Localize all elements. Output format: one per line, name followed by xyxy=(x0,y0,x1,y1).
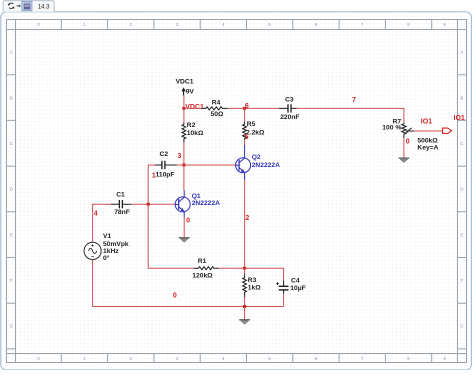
svg-text:120kΩ: 120kΩ xyxy=(192,272,213,279)
ground (Q1 emitter) xyxy=(179,237,190,239)
svg-text:IO1: IO1 xyxy=(454,115,465,122)
svg-text:A: A xyxy=(461,50,464,55)
svg-text:C: C xyxy=(460,141,463,146)
capacitor C2 110pF xyxy=(155,151,177,178)
svg-text:V1: V1 xyxy=(103,233,111,240)
wire net VDC1 rail to R4 xyxy=(184,107,202,109)
junction node 1 xyxy=(147,203,150,206)
resistor R4 50Ω xyxy=(202,100,228,118)
transistor Q2 2N2222A xyxy=(236,154,281,173)
svg-text:2: 2 xyxy=(245,215,249,222)
wire node 3 to C2 xyxy=(177,164,184,166)
ground (R7) xyxy=(399,157,410,159)
svg-text:2N2222A: 2N2222A xyxy=(192,200,220,207)
source V1 50mVpk 1kHz xyxy=(84,233,129,262)
svg-text:C2: C2 xyxy=(160,151,169,158)
svg-text:B: B xyxy=(10,95,13,100)
svg-text:0: 0 xyxy=(186,217,190,224)
capacitor C4 10µF (electrolytic) xyxy=(276,277,305,293)
Q1 emitter pin xyxy=(183,212,185,218)
potentiometer R7 500kΩ Key=A 100% xyxy=(382,119,438,152)
junction VDC1 rail / R2 xyxy=(182,107,185,110)
svg-text:5: 5 xyxy=(245,134,249,141)
wire V1 top to C1 xyxy=(93,204,111,242)
wire R2 to node 3 xyxy=(183,143,185,166)
svg-text:R2: R2 xyxy=(187,122,196,129)
svg-text:R4: R4 xyxy=(212,100,221,107)
svg-text:E: E xyxy=(461,232,464,237)
svg-text:C: C xyxy=(10,141,13,146)
wire R4 to node 6 xyxy=(228,107,245,109)
wire net VDC1 vertical from supply to rail xyxy=(183,95,185,108)
svg-text:110pF: 110pF xyxy=(156,171,175,178)
svg-text:0: 0 xyxy=(406,138,410,145)
svg-text:F: F xyxy=(10,278,13,283)
svg-text:10µF: 10µF xyxy=(290,285,305,292)
svg-text:C3: C3 xyxy=(285,96,294,103)
wire rail to R2 xyxy=(183,108,185,122)
wire net 2: Q2 emitter down to R1/R3 junction xyxy=(244,180,246,268)
wire R7 bottom to ground xyxy=(403,138,405,158)
wire net 0 bottom rail xyxy=(93,260,284,307)
svg-text:D: D xyxy=(10,187,13,192)
svg-text:100 %: 100 % xyxy=(382,125,401,132)
junction node 6 xyxy=(243,107,246,110)
resistor R1 120kΩ xyxy=(192,258,218,279)
Q1 collector pin xyxy=(183,191,185,198)
svg-text:VDC1: VDC1 xyxy=(185,104,204,111)
svg-text:G: G xyxy=(460,324,463,329)
Q2 emitter pin xyxy=(244,173,246,180)
transistor Q1 2N2222A xyxy=(175,193,220,212)
svg-text:2N2222A: 2N2222A xyxy=(252,162,280,169)
svg-text:1: 1 xyxy=(152,172,156,179)
svg-text:6: 6 xyxy=(245,103,249,110)
wire node 6 to R5 xyxy=(244,108,246,121)
svg-text:9V: 9V xyxy=(186,88,195,95)
svg-text:0: 0 xyxy=(173,293,177,300)
svg-text:VDC1: VDC1 xyxy=(176,78,194,85)
wire node 3 to Q2 base xyxy=(184,164,236,166)
svg-text:2.2kΩ: 2.2kΩ xyxy=(246,129,265,136)
junction R1/R3/C4/net2 xyxy=(243,267,246,270)
svg-text:IO1: IO1 xyxy=(421,118,432,125)
wire Q1 emitter to ground xyxy=(183,218,185,238)
wire junction to ground xyxy=(244,307,246,320)
wire node 6 to C3 xyxy=(245,107,279,109)
ground (bottom rail) xyxy=(239,319,250,321)
svg-text:F: F xyxy=(461,278,464,283)
svg-text:C4: C4 xyxy=(291,277,300,284)
wire wiper to IO1 connector xyxy=(414,130,443,132)
power source VDC1 (9V supply arrow) xyxy=(176,78,195,95)
wire node 1 down to R1 xyxy=(148,204,193,268)
wire node 3 down to Q1 collector xyxy=(183,165,185,191)
svg-text:50mVpk: 50mVpk xyxy=(103,241,129,248)
resistor R5 2.2kΩ xyxy=(243,121,265,140)
wire C1 to node 1 / Q1 base xyxy=(131,203,175,205)
svg-text:R5: R5 xyxy=(247,121,256,128)
junction bottom rail / ground xyxy=(243,305,246,308)
svg-text:R1: R1 xyxy=(198,258,207,265)
svg-text:B: B xyxy=(461,95,464,100)
svg-text:1kΩ: 1kΩ xyxy=(248,284,261,291)
svg-text:G: G xyxy=(10,324,13,329)
svg-text:4: 4 xyxy=(94,211,98,218)
wire junction to C4 xyxy=(245,268,284,280)
wire net 7 from C3 to R7 top xyxy=(297,108,404,122)
Q2 collector pin xyxy=(244,145,246,158)
resistor R3 1kΩ xyxy=(243,268,262,297)
capacitor C1 78nF xyxy=(111,191,131,216)
resistor R2 10kΩ xyxy=(182,122,204,143)
svg-text:220nF: 220nF xyxy=(280,114,299,121)
svg-text:7: 7 xyxy=(352,97,356,104)
svg-text:50Ω: 50Ω xyxy=(211,111,224,118)
svg-text:500kΩ: 500kΩ xyxy=(417,138,438,145)
connector IO1 xyxy=(421,118,452,133)
svg-text:14.3: 14.3 xyxy=(38,4,50,10)
svg-text:A: A xyxy=(10,50,13,55)
capacitor C3 220nF xyxy=(279,96,300,121)
wire R5 to Q2 collector xyxy=(244,140,246,145)
svg-text:0°: 0° xyxy=(103,254,110,262)
svg-text:Q2: Q2 xyxy=(252,154,261,161)
wire R3 to bottom rail xyxy=(244,297,246,306)
wire C4 to bottom rail xyxy=(283,294,285,307)
svg-text:D: D xyxy=(460,187,463,192)
junction node 3 xyxy=(182,164,185,167)
svg-text:E: E xyxy=(10,232,13,237)
wire R1 to junction xyxy=(219,267,245,269)
svg-text:C1: C1 xyxy=(116,191,125,198)
svg-text:78nF: 78nF xyxy=(114,209,130,216)
wire C2 left to node 1 xyxy=(148,165,155,204)
svg-text:Key=A: Key=A xyxy=(417,145,438,152)
svg-text:10kΩ: 10kΩ xyxy=(187,130,204,137)
svg-text:R3: R3 xyxy=(248,277,257,284)
svg-text:3: 3 xyxy=(178,153,182,160)
